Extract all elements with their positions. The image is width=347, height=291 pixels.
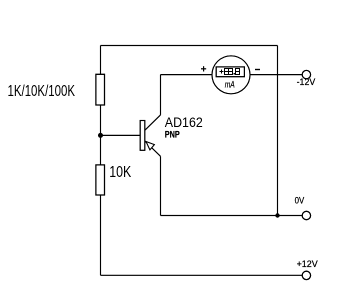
svg-text:10K: 10K	[109, 164, 131, 181]
svg-text:0V: 0V	[295, 196, 305, 206]
svg-text:-12V: -12V	[297, 77, 316, 87]
svg-text:AD162: AD162	[165, 114, 203, 130]
svg-text:PNP: PNP	[165, 129, 180, 139]
svg-text:+12V: +12V	[297, 259, 318, 269]
svg-text:mA: mA	[225, 80, 235, 90]
svg-text:1K/10K/100K: 1K/10K/100K	[8, 83, 76, 100]
